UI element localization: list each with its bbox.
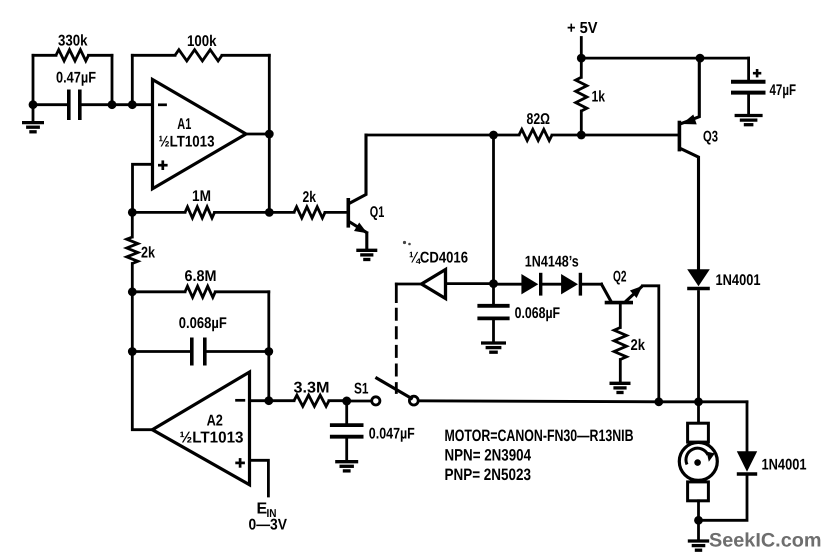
node: 82ohm left junction (489, 131, 498, 140)
motor body circle (679, 442, 717, 480)
node: A1 output junction (265, 130, 274, 139)
node: motor bottom junction (694, 516, 703, 525)
wire: junction to 1N4148 (494, 283, 522, 286)
op-amp A1 (153, 80, 247, 189)
label EIN (257, 501, 277, 521)
svg-text:S1: S1 (354, 380, 369, 397)
transistor Q3 emitter (682, 58, 700, 124)
wire: 6.8M right leg down (267, 292, 270, 401)
wire: rail segment to diode branch (659, 400, 747, 403)
diode 1N4148 first (521, 273, 540, 296)
wire: +5V rail (581, 57, 748, 60)
wire: diode to motor rail (697, 292, 700, 402)
resistor 2k Q2 (614, 304, 626, 383)
transistor Q1 emitter (349, 222, 367, 250)
node: 330k/cap right junction (108, 100, 117, 109)
svg-text:0.047µF: 0.047µF (369, 425, 415, 442)
svg-text:MOTOR=CANON-FN30—R13NIB: MOTOR=CANON-FN30—R13NIB (445, 427, 634, 445)
motor brush block top (688, 423, 709, 442)
label 0.47uF (56, 70, 96, 87)
label quarter CD4016 (409, 250, 468, 267)
capacitor 0.047uF (330, 401, 364, 460)
wire: between 1N4148s (543, 283, 562, 286)
transistor Q2 emitter (626, 286, 642, 301)
svg-text:¼CD4016: ¼CD4016 (409, 250, 468, 267)
svg-text:1M: 1M (192, 188, 211, 205)
label 1N4001 top (716, 272, 761, 289)
svg-text:2k: 2k (303, 189, 317, 206)
label 0.068uF left (179, 315, 227, 332)
svg-text:Q3: Q3 (703, 129, 718, 146)
svg-text:82Ω: 82Ω (527, 111, 551, 128)
node: motor top junction (694, 397, 703, 406)
svg-text:0.068µF: 0.068µF (179, 315, 227, 332)
label 2k Q2 (631, 337, 646, 354)
svg-text:½LT1013: ½LT1013 (180, 430, 244, 447)
wire: A1 noninverting input leg (133, 164, 153, 212)
svg-text:+ 5V: + 5V (567, 20, 598, 37)
resistor 100k (132, 50, 269, 61)
svg-text:330k: 330k (58, 33, 88, 50)
svg-text:0—3V: 0—3V (249, 517, 288, 534)
svg-text:NPN= 2N3904: NPN= 2N3904 (445, 447, 532, 465)
capacitor 47uF plus sign (753, 69, 761, 77)
label 82ohm (527, 111, 551, 128)
wire: flyback diode to motor bottom (699, 475, 748, 521)
node: +5V junction (577, 54, 586, 63)
speck marks (403, 241, 411, 245)
capacitor 0.068uF left (132, 338, 268, 366)
node: Q2 emitter rail junction (654, 397, 663, 406)
svg-text:6.8M: 6.8M (185, 268, 217, 285)
svg-text:1N4001: 1N4001 (762, 457, 807, 474)
label A1 (177, 116, 191, 133)
wire: 330k top loop left leg (32, 55, 35, 104)
label 1k (592, 89, 606, 106)
label 100k (187, 33, 217, 50)
node: Q3 emitter junction (696, 54, 705, 63)
node: 1M left junction (128, 208, 137, 217)
wire: flyback diode branch (746, 402, 749, 451)
wire: input node row (33, 103, 153, 106)
wire: left rail to cap row (131, 292, 134, 352)
wire: 47uF bottom lead (747, 95, 750, 115)
node: 1M right junction (265, 208, 274, 217)
op-amp A2 (152, 372, 249, 485)
ground 47uF (735, 116, 763, 125)
resistor 6.8M (132, 286, 268, 297)
label 0.068uF mid (515, 305, 561, 322)
resistor 1M (132, 207, 269, 218)
svg-text:2k: 2k (141, 245, 155, 262)
wire: A2 inverting input (250, 399, 269, 402)
diode 1N4148 second (561, 273, 580, 296)
label Q2 (613, 268, 627, 285)
svg-text:PNP= 2N5023: PNP= 2N5023 (445, 466, 532, 484)
svg-text:1k: 1k (592, 89, 606, 106)
label 6.8M (185, 268, 217, 285)
svg-text:47µF: 47µF (770, 82, 797, 99)
ground motor (688, 520, 709, 550)
watermark SeekIC.com (709, 530, 822, 552)
svg-text:0.068µF: 0.068µF (515, 305, 561, 322)
node: buffer junction (489, 279, 498, 288)
label 47uF (770, 82, 797, 99)
label S1 (354, 380, 369, 397)
svg-text:2k: 2k (631, 337, 646, 354)
wire: motor bottom lead (697, 501, 700, 521)
wire: dashed control line (395, 284, 398, 393)
transistor Q2 collector (602, 284, 611, 301)
svg-text:1N4001: 1N4001 (716, 272, 761, 289)
node: 330k/cap left junction (29, 100, 38, 109)
resistor 3.3M (269, 395, 347, 406)
node: cap 0.068 left junction B (264, 347, 273, 356)
wire: 82ohm node down to buffer (492, 135, 495, 284)
motor center dot (694, 459, 701, 466)
label A2 (207, 412, 224, 429)
node: 0.047uF junction (342, 397, 351, 406)
svg-text:1N4148’s: 1N4148’s (525, 253, 579, 270)
label pnp legend (445, 466, 532, 484)
wire: cap 0.068 mid to ground (492, 320, 495, 342)
svg-text:A2: A2 (207, 412, 224, 429)
wire: Q2 emitter to rail (643, 286, 659, 402)
switch S1 right terminal (409, 396, 418, 405)
wire: +5V stem (580, 38, 583, 59)
op-amp A2 minus sign (235, 399, 245, 402)
svg-text:½LT1013: ½LT1013 (159, 133, 215, 150)
wire: motor top lead (697, 402, 700, 424)
ground Q1 emitter (356, 250, 377, 259)
label Q3 (703, 129, 718, 146)
wire: A1 output (245, 133, 269, 136)
wire: 100k right leg down to output rail (268, 55, 271, 212)
resistor 2k base Q1 (269, 207, 347, 218)
label +5V (567, 20, 598, 37)
resistor 82ohm (494, 129, 582, 140)
wire: base feed to Q3 (581, 134, 678, 137)
label 0.047uF (369, 425, 415, 442)
svg-text:3.3M: 3.3M (294, 380, 330, 397)
wire: to S1 left terminal (347, 400, 372, 403)
diode 1N4001 flyback (737, 451, 757, 474)
label 3.3M (294, 380, 330, 397)
wire: 330k right leg (111, 55, 114, 104)
svg-text:100k: 100k (187, 33, 217, 50)
ground at input node (22, 105, 44, 132)
node: A1 inverting input junction (128, 100, 137, 109)
wire: 47uF top lead (747, 58, 750, 80)
node: 1k bottom junction (577, 131, 586, 140)
transistor Q2 base bar (605, 301, 633, 305)
node: cap 0.068 left junction A (128, 347, 137, 356)
transistor Q3 collector (681, 149, 699, 269)
resistor 330k (33, 50, 112, 61)
label motor legend (445, 427, 634, 445)
resistor 1k (576, 58, 587, 135)
diode 1N4001 collector (687, 269, 710, 288)
op-amp A2 plus sign (235, 458, 245, 468)
wire: junction to cap 0.068 mid (492, 284, 495, 306)
label Q1 (370, 204, 385, 221)
op-amp A1 plus sign (158, 160, 168, 170)
label 0-3V (249, 517, 288, 534)
svg-text:Q1: Q1 (370, 204, 385, 221)
svg-text:SeekIC.com: SeekIC.com (709, 530, 822, 552)
label 330k (58, 33, 88, 50)
op-amp A1 minus sign (158, 103, 167, 106)
wire: left rail to A2 output (132, 352, 153, 430)
wire: 1N4148 to Q2 collector (583, 283, 601, 286)
transistor Q1 collector (349, 135, 366, 204)
svg-text:Q2: Q2 (613, 268, 627, 285)
switch S1 left terminal (372, 397, 380, 405)
ground 2k Q2 (610, 383, 631, 392)
label npn legend (445, 447, 532, 465)
ground cap 0.068 mid (481, 343, 506, 352)
motor brush block bottom (688, 482, 709, 501)
node: 6.8M left junction (128, 287, 137, 296)
transistor Q3 base bar (678, 121, 682, 152)
wire: buffer output to junction (446, 282, 494, 285)
wire: S1 to motor rail (419, 401, 659, 402)
resistor 2k left rail (127, 212, 138, 291)
node: A2 inverting junction (264, 396, 273, 405)
transistor Q1 base bar (346, 198, 350, 228)
label A1 halfLT1013 (159, 133, 215, 150)
wire: 100k left leg (131, 55, 134, 104)
label 1N4001 bottom (762, 457, 807, 474)
svg-text:0.47µF: 0.47µF (56, 70, 96, 87)
buffer quarter CD4016 (422, 270, 446, 299)
capacitor 0.068uF mid (477, 306, 509, 319)
motor rotation arrow (686, 448, 715, 464)
capacitor 0.47uF (69, 90, 80, 121)
wire: buffer input horizontal (396, 283, 421, 286)
label 2k left (141, 245, 155, 262)
ground 0.047uF (335, 462, 358, 471)
capacitor 47uF (731, 82, 766, 93)
label 2k base Q1 (303, 189, 317, 206)
wire: A2 noninverting input (250, 460, 269, 496)
label 1N4148s (525, 253, 579, 270)
switch S1 blade (377, 378, 412, 398)
wire: Q1 collector to CD4016 rail (366, 134, 494, 137)
label A2 halfLT1013 (180, 430, 244, 447)
label 1M (192, 188, 211, 205)
svg-text:A1: A1 (177, 116, 191, 133)
